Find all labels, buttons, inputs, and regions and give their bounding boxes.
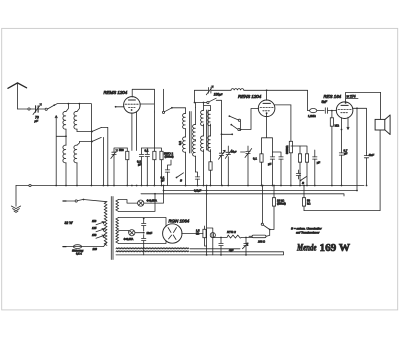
svg-text:4×0,65A: 4×0,65A	[124, 237, 134, 241]
wire HT top	[119, 218, 167, 227]
wire V3 heater leads	[341, 117, 349, 130]
wire k-leads to bus	[131, 185, 138, 187]
capacitor trimmer T1	[111, 148, 128, 186]
svg-text:200 Ω: 200 Ω	[257, 239, 265, 243]
wire speaker return	[304, 210, 380, 212]
heater winding long 1	[116, 248, 189, 249]
autotransformer winding	[104, 202, 107, 246]
capacitor 0,2uF	[139, 148, 143, 186]
resistor R12	[300, 146, 309, 186]
secondary winding 1	[116, 200, 119, 212]
wire V2 cathode	[262, 114, 273, 152]
capacitor Ck2	[270, 152, 274, 186]
capacitor trim2	[241, 146, 252, 186]
capacitor S2 cap	[296, 170, 306, 181]
bus main	[16, 185, 364, 187]
lamp L2	[119, 230, 144, 236]
svg-text:50kΩ: 50kΩ	[307, 199, 310, 206]
secondary winding 2	[116, 218, 119, 244]
wave switch blades	[91, 127, 101, 142]
wire pot up	[262, 185, 264, 224]
earth terminal	[29, 184, 31, 186]
transformer core	[111, 197, 113, 260]
svg-text:auf Tonabnehmer: auf Tonabnehmer	[296, 231, 320, 235]
wire V1 cathode leads	[132, 112, 137, 151]
wire antenna to block	[57, 104, 91, 186]
switch S1	[176, 173, 184, 179]
svg-text:32 W: 32 W	[65, 221, 74, 225]
labels taps	[92, 219, 97, 237]
capacitor 0,5uF	[195, 172, 199, 186]
svg-text:w 274: w 274	[347, 95, 356, 99]
wire taps right	[77, 132, 92, 146]
wire w1 bottom	[119, 193, 156, 211]
wire switch drops	[102, 127, 108, 185]
resistor Rsg	[289, 105, 292, 186]
coil L1a	[63, 104, 69, 130]
capacitor pair HT	[142, 219, 146, 255]
svg-text:Mende: Mende	[296, 244, 317, 254]
svg-text:S: S	[180, 179, 182, 183]
wire HT bottom	[119, 241, 167, 244]
wire V2 plate	[274, 104, 291, 106]
capacitor electrolytic	[207, 228, 216, 255]
capacitor 4uF a	[219, 237, 223, 256]
capacitor 0,7uF	[339, 130, 343, 186]
svg-text:RENS 1204: RENS 1204	[238, 94, 262, 99]
svg-text:REMS 1204: REMS 1204	[104, 90, 128, 95]
switch blades osc	[229, 115, 241, 130]
ground	[11, 186, 20, 213]
resistor R2	[153, 112, 156, 186]
resistor RTG2	[213, 235, 252, 238]
tap arrows	[96, 222, 104, 239]
choke Dr	[310, 109, 325, 113]
heater winding long 2	[116, 251, 189, 252]
capacitor 5nF out	[364, 152, 368, 185]
svg-text:150: 150	[92, 233, 97, 237]
coil osc B2	[208, 124, 213, 186]
svg-text:0,1: 0,1	[253, 157, 257, 161]
wire V2 top cap	[266, 89, 268, 100]
wire grid2 coils top	[203, 102, 211, 111]
svg-text:µF: µF	[317, 161, 321, 165]
coil L2b	[74, 145, 77, 163]
tube V1	[124, 97, 141, 114]
lamp L1	[119, 185, 165, 207]
resistor Rf	[203, 226, 207, 246]
capacitor C4	[145, 148, 149, 186]
svg-text:110: 110	[92, 219, 97, 223]
wire speaker drop	[379, 130, 381, 211]
main drop wire	[206, 185, 208, 256]
wire coupling	[308, 90, 310, 110]
tube V2	[258, 100, 275, 117]
pickup arrow	[243, 243, 249, 249]
svg-text:0,1: 0,1	[145, 149, 149, 153]
capacitor trimmer osc	[219, 150, 226, 185]
svg-text:500: 500	[119, 148, 124, 152]
svg-text:5nF: 5nF	[369, 153, 374, 157]
svg-text:4×0,65 A: 4×0,65 A	[147, 199, 158, 203]
junction dots bus left	[55, 185, 162, 187]
coil L1b	[63, 145, 66, 163]
svg-text:220: 220	[92, 247, 98, 251]
svg-text:RES 164: RES 164	[324, 94, 342, 99]
bandfilter coil B2	[193, 140, 196, 172]
svg-text:RWO 2(2Watt): RWO 2(2Watt)	[164, 152, 174, 159]
antenna	[8, 83, 27, 109]
bandfilter coil A1	[183, 108, 186, 129]
pickup lever	[261, 223, 270, 230]
wire V1 top cap	[132, 89, 154, 97]
antenna terminal	[18, 108, 31, 110]
bandfilter switch blade	[162, 89, 185, 113]
wire coil links	[66, 103, 80, 186]
capacitor 4uF b	[244, 237, 248, 256]
wire RGN out	[182, 233, 203, 235]
wire mid tap	[55, 116, 67, 186]
return line bottom	[116, 249, 284, 255]
svg-text:125: 125	[92, 226, 97, 230]
coil osc A1	[201, 110, 204, 125]
heater line 1	[164, 190, 358, 192]
core osc	[207, 110, 209, 150]
svg-text:1,2MΩ: 1,2MΩ	[308, 114, 316, 118]
resistor Rg3	[330, 110, 333, 186]
resistor R11	[291, 146, 302, 186]
switch antenna	[38, 104, 57, 110]
svg-text:µF: µF	[268, 162, 272, 166]
capacitor pad osc	[225, 146, 232, 186]
capacitor 0,1uF bf	[165, 160, 171, 186]
svg-text:0,7µF: 0,7µF	[344, 149, 348, 156]
bandfilter core	[190, 112, 192, 154]
capacitor Csg	[313, 150, 317, 186]
switch osc	[209, 98, 233, 153]
mains switch	[63, 199, 107, 202]
resistor 10k	[270, 185, 276, 230]
speaker	[375, 115, 390, 135]
junction dots bus mid	[185, 185, 368, 187]
wire V3 anode side	[352, 107, 366, 190]
capacitor 70pF trimmer	[30, 104, 41, 115]
coil osc A2	[201, 124, 204, 186]
capacitor 5nF g3	[325, 108, 336, 114]
capacitor 100pF trimmer	[195, 86, 214, 95]
wire V2 grid left	[240, 109, 259, 131]
wire V3 top cap	[345, 92, 381, 119]
label w274	[346, 95, 358, 99]
bandfilter coil A2	[183, 129, 186, 186]
svg-text:S: S	[302, 181, 304, 185]
svg-text:RTG 2: RTG 2	[227, 230, 236, 234]
potentiometer 200	[249, 230, 270, 238]
resistor 50k	[302, 185, 305, 211]
heater line 2	[141, 194, 344, 196]
svg-text:30000Ω: 30000Ω	[286, 145, 289, 154]
wire osc feed	[194, 90, 209, 107]
svg-text:RGN 1064: RGN 1064	[169, 219, 190, 224]
wire V1 grid-left	[115, 106, 124, 108]
resistor Rk2	[260, 152, 263, 186]
label S note	[291, 226, 323, 234]
tube V3	[336, 102, 353, 119]
svg-text:0,2: 0,2	[178, 141, 182, 145]
capacitor C10	[273, 152, 284, 186]
resistor 500	[126, 148, 129, 186]
svg-text:10nF: 10nF	[147, 232, 153, 235]
resistor RWO2	[142, 148, 164, 186]
wire V1 plate	[140, 89, 155, 112]
fuse	[63, 243, 107, 249]
svg-text:MΩ: MΩ	[335, 124, 339, 128]
svg-text:0,1µF: 0,1µF	[161, 176, 165, 183]
rectifier RGN1064	[163, 224, 182, 243]
bandfilter coil B1	[193, 108, 196, 140]
coil osc B1	[208, 110, 211, 125]
coil osc horizontal	[212, 89, 308, 91]
svg-text:100pF: 100pF	[214, 93, 223, 97]
coil L2a	[74, 104, 80, 130]
svg-text:169 W: 169 W	[320, 242, 351, 254]
